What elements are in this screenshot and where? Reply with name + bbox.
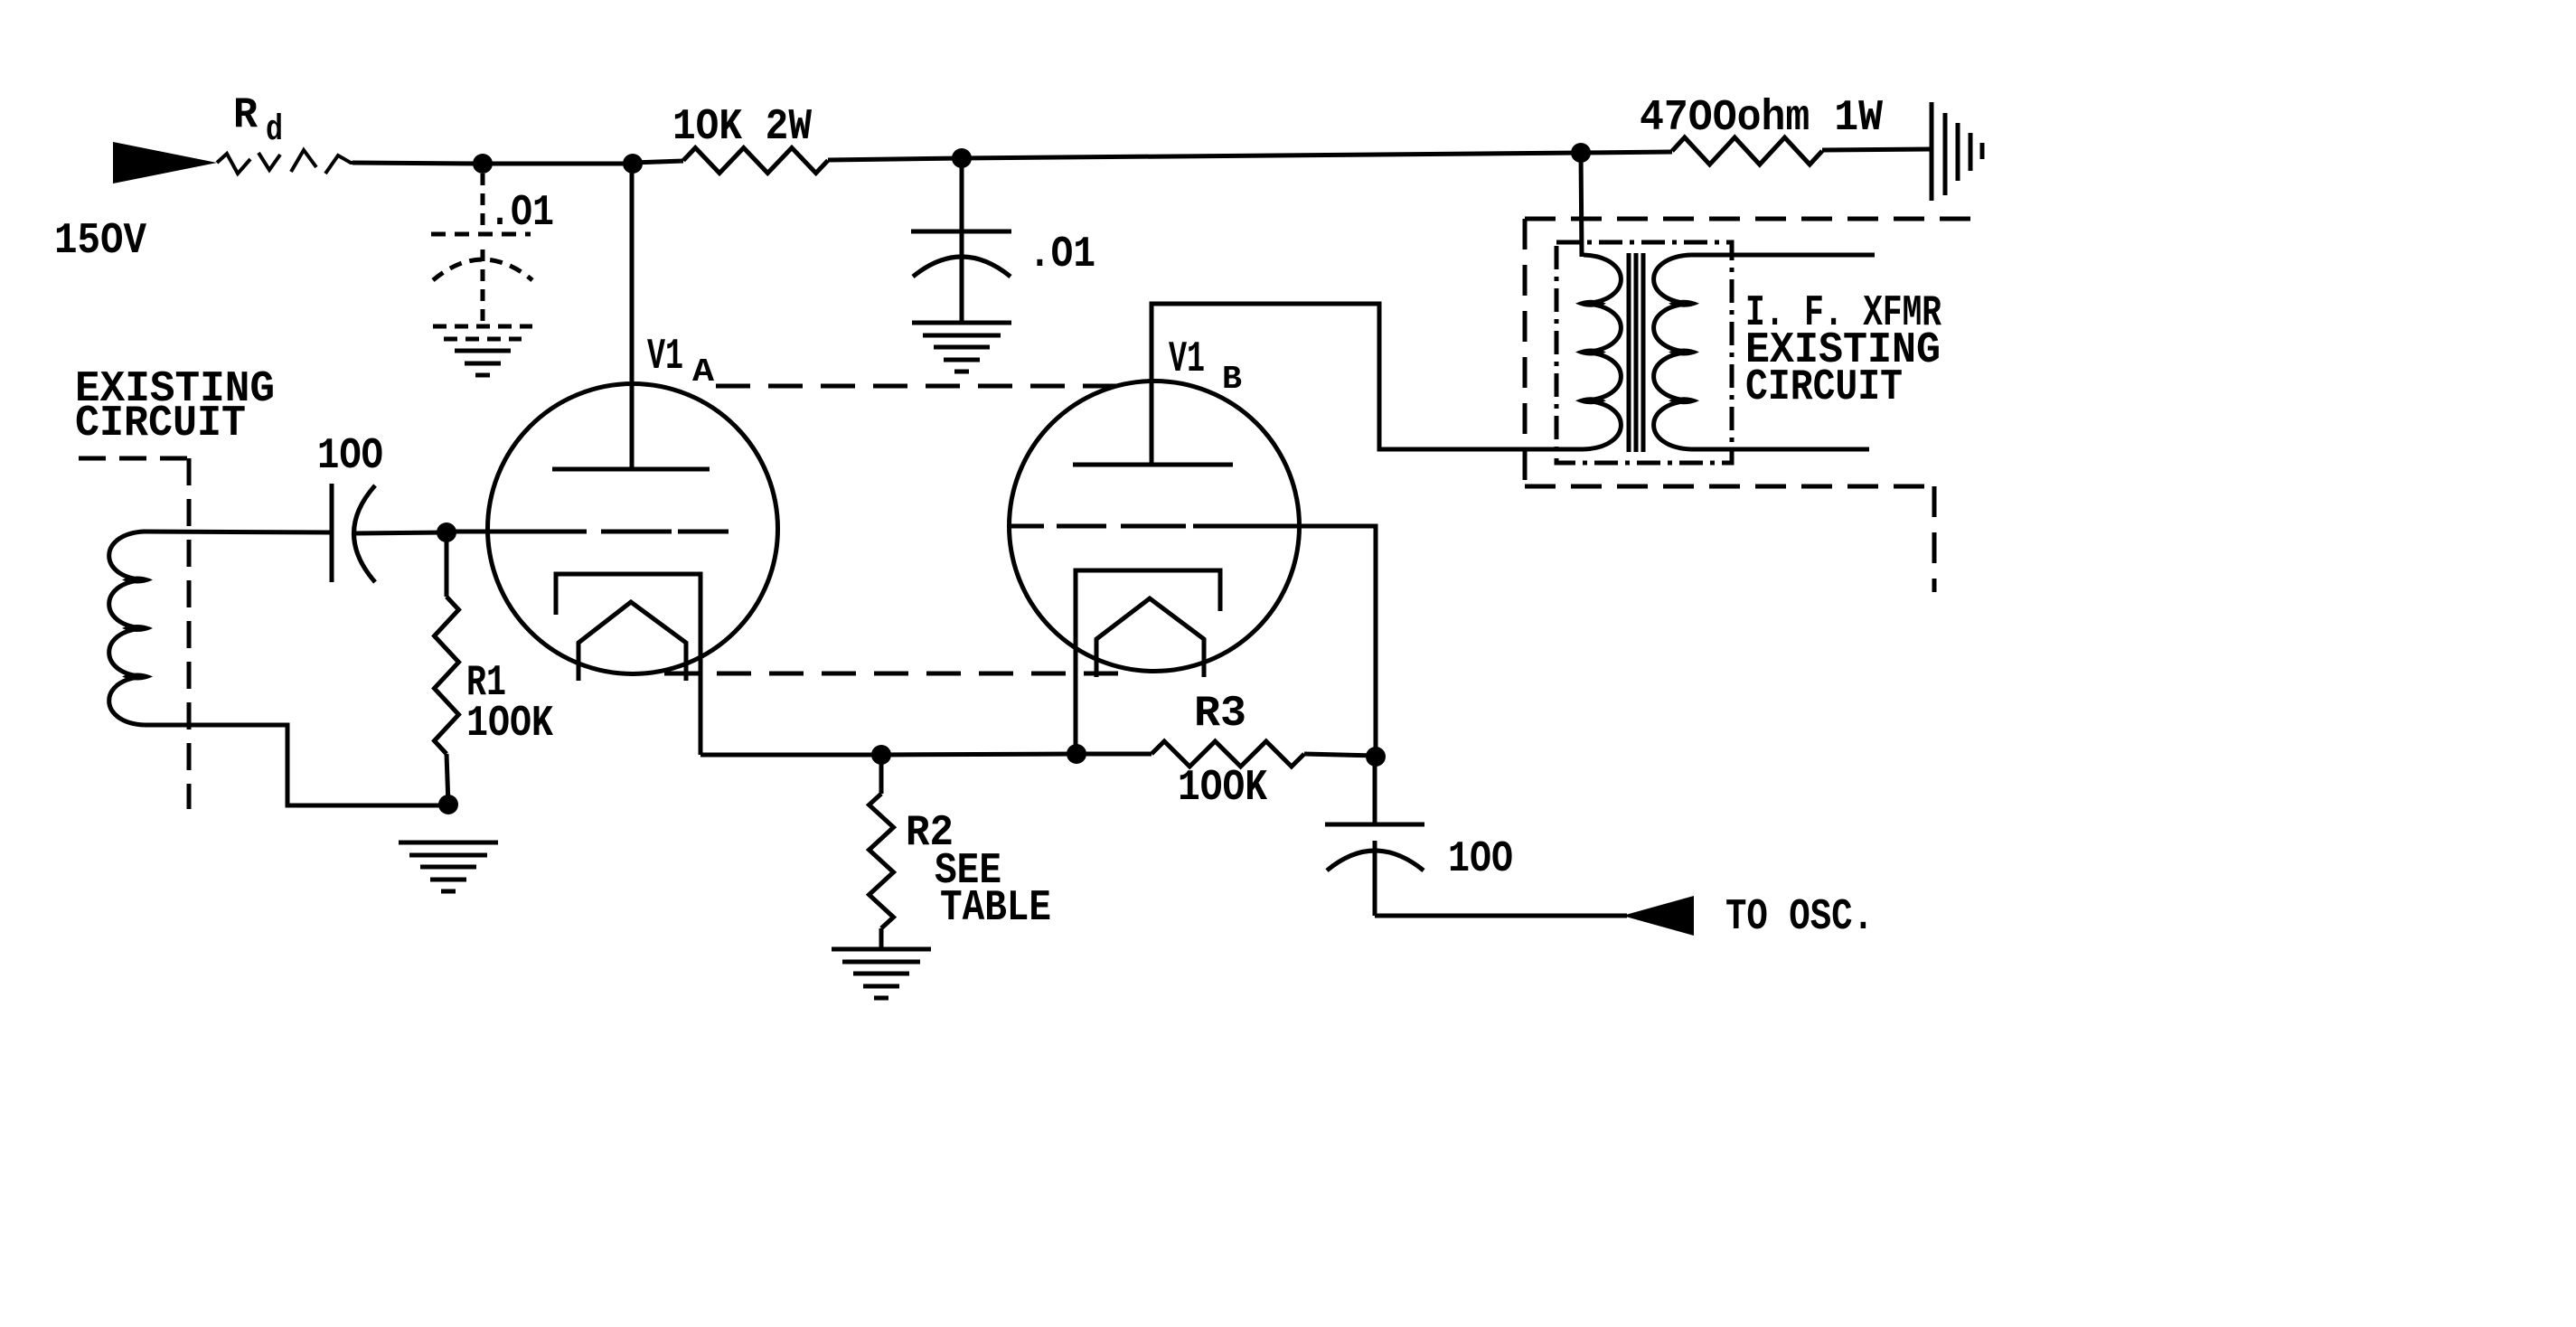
dashed envelope link bottom (V1A to V1B) (664, 672, 1130, 676)
V1A grid (dashed) (447, 530, 729, 534)
dashed envelope link top (V1A to V1B) (716, 384, 1116, 389)
svg-text:.O1: .O1 (489, 189, 554, 238)
resistor 4700ohm 1W (1672, 137, 1822, 165)
node C: junction bus / IF transformer primary (1571, 143, 1591, 163)
dashed boundary: EXISTING CIRCUIT (left) (79, 458, 189, 809)
svg-text:1OOK: 1OOK (466, 700, 553, 748)
node E: junction cathode bus / R2 (871, 745, 891, 765)
wire: V1A cathode to node E (bottom bus) (700, 753, 881, 758)
node F: junction cathode bus / V1B cathode / R3 (1067, 744, 1086, 764)
V1B cathode shield bracket (1076, 570, 1220, 754)
capacitor (dashed, optional) at node A, .01 (431, 174, 532, 326)
svg-text:TO OSC.: TO OSC. (1725, 893, 1874, 942)
wire: node E to node F (881, 754, 1076, 755)
inductor: existing circuit IF coil (109, 532, 145, 725)
V1A plate (552, 467, 710, 472)
wire: V1B grid to node G (1193, 526, 1376, 756)
svg-text:V1: V1 (1169, 335, 1205, 384)
svg-text:V1: V1 (647, 333, 683, 381)
ground below .01 bypass capacitor (912, 323, 1011, 372)
dashed boundary: IF XFMR existing circuit (right) (1525, 219, 1977, 592)
svg-text:CIRCUIT: CIRCUIT (1745, 363, 1903, 412)
svg-text:1OO: 1OO (1448, 835, 1513, 884)
output terminal arrow TO OSC (1622, 896, 1694, 936)
resistor R2 (cathode bias, see table) (870, 755, 894, 949)
wire: existing-circuit coil to input capacitor (143, 532, 332, 532)
node R1 bottom junction (438, 795, 458, 814)
resistor Rd (hand-drawn dropping resistor in B+ lead) (217, 150, 362, 174)
wire: secondary top to existing circuit (1691, 253, 1875, 258)
wire: 4700ohm to chassis ground (1822, 149, 1932, 150)
coil turn ticks (122, 577, 153, 681)
IF transformer primary winding (1584, 255, 1621, 449)
svg-text:15OV: 15OV (54, 217, 146, 266)
wire: junction A to junction B (483, 162, 633, 166)
svg-text:1OOK: 1OOK (1178, 764, 1267, 813)
resistor R1 100K grid leak (435, 532, 459, 805)
wire: coil bottom to R1 bottom node (145, 725, 448, 805)
wire: V1B plate to IF transformer primary bottom (1152, 304, 1584, 465)
V1A filament/heater (578, 602, 686, 681)
svg-text:.O1: .O1 (1029, 231, 1095, 279)
IF transformer core (1629, 253, 1643, 452)
node G: junction R3 / grid V1B / output capacitor (1366, 747, 1386, 767)
wire: 10K to junction D (828, 158, 962, 160)
dash-dot shield box around IF transformer (1556, 242, 1732, 463)
resistor R3 100K (1152, 741, 1304, 767)
node D: junction bus / .01 bypass capacitor (952, 148, 972, 168)
capacitor 100 output coupling at node G (1325, 757, 1424, 916)
tube V1A envelope (488, 384, 778, 674)
wire: R3 to node G (1304, 754, 1376, 756)
node A: junction of Rd, bus, dashed capacitor (473, 154, 493, 174)
V1A plate lead from node B (630, 164, 635, 469)
resistor 10K 2W (683, 148, 828, 174)
IF transformer secondary winding (1654, 255, 1691, 449)
wire: input capacitor to grid node A (354, 532, 447, 533)
wire: node C down to IF transformer primary (1581, 153, 1582, 257)
V1B plate (1073, 463, 1233, 467)
svg-text:R: R (233, 91, 258, 140)
svg-text:d: d (266, 110, 283, 151)
svg-text:1OK 2W: 1OK 2W (672, 103, 812, 152)
chassis ground (vertical-bar earth symbol) (1932, 102, 1982, 201)
ground below R2 (832, 949, 931, 998)
svg-text:1OO: 1OO (317, 432, 383, 481)
ground below R1 (399, 842, 498, 891)
secondary turn ticks (1669, 300, 1699, 404)
wire: Rd to junction A (top bus left) (353, 163, 483, 164)
label V1B (1169, 335, 1242, 398)
wire: junction B to resistor 10K (633, 161, 683, 163)
V1B filament/heater (1096, 598, 1204, 677)
label V1A (647, 333, 714, 391)
V1A cathode shield bracket (556, 574, 700, 755)
node B: junction bus / V1A plate lead (623, 154, 643, 174)
svg-text:A: A (692, 353, 714, 391)
wire: output capacitor to TO OSC terminal (1375, 914, 1627, 918)
V1B grid (dashed) (1011, 524, 1186, 529)
wire: junction C to resistor 4700ohm (1581, 152, 1672, 153)
svg-text:R3: R3 (1194, 690, 1246, 739)
ground (dashed) below dashed capacitor (433, 326, 532, 375)
capacitor .01 bypass at node D (911, 158, 1011, 323)
wire: secondary bottom to existing circuit (1691, 447, 1869, 452)
svg-text:TABLE: TABLE (940, 884, 1051, 933)
svg-text:47OOohm 1W: 47OOohm 1W (1640, 94, 1883, 143)
node grid A junction (cap 100 / R1 / grid) (437, 522, 456, 542)
wire: node F to R3 (1076, 752, 1152, 757)
primary turn ticks (1575, 300, 1606, 404)
svg-text:CIRCUIT: CIRCUIT (75, 400, 246, 448)
tube V1B envelope (1010, 381, 1300, 672)
svg-text:B: B (1222, 361, 1242, 398)
wire: junction D to junction C (962, 153, 1581, 158)
input terminal arrow 150V (113, 142, 217, 184)
capacitor 100 input coupling (332, 484, 375, 582)
